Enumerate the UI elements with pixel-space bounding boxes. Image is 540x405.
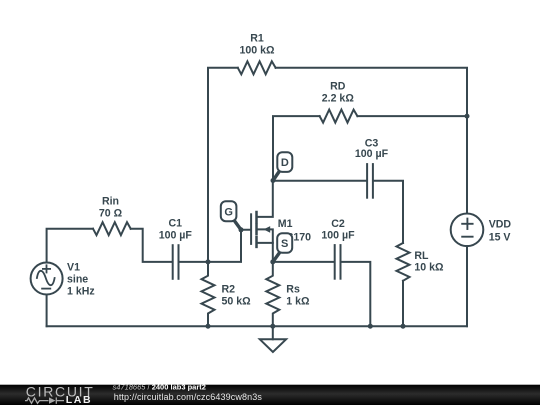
wire RD to VDD rail <box>357 115 467 117</box>
wire D node to C3 <box>273 180 366 182</box>
resistor RD <box>320 110 358 123</box>
wire VDD bottom <box>466 246 468 326</box>
svg-text:RL: RL <box>414 250 429 262</box>
svg-text:100 µF: 100 µF <box>321 229 355 241</box>
svg-text:15 V: 15 V <box>489 231 511 243</box>
svg-text:50 kΩ: 50 kΩ <box>222 296 252 308</box>
voltage source VDD <box>451 214 484 247</box>
label BS170 <box>279 231 311 243</box>
node R2 bottom <box>206 324 211 329</box>
label C1 <box>159 218 193 242</box>
footer title line <box>113 383 263 403</box>
CircuitLab logo text CIRCUIT <box>26 383 95 399</box>
node RL bottom <box>401 324 406 329</box>
svg-text:1 kHz: 1 kHz <box>67 286 95 298</box>
resistor R1 <box>238 61 276 74</box>
node flag D <box>273 152 292 180</box>
wire RD left leg <box>273 116 320 180</box>
wire V1 bottom <box>46 295 48 327</box>
label R1 <box>239 32 275 56</box>
wire R1 to VDD rail <box>276 68 467 116</box>
CircuitLab logo squiggle <box>25 397 64 403</box>
label RL <box>414 250 444 273</box>
resistor R2 <box>202 262 215 326</box>
node D dot <box>271 178 276 183</box>
svg-text:100 kΩ: 100 kΩ <box>239 44 275 56</box>
resistor Rs <box>266 262 279 326</box>
wire C1 to gate junction <box>179 230 250 262</box>
voltage source V1 <box>31 263 63 295</box>
node S dot <box>270 259 275 264</box>
label RD <box>322 80 355 104</box>
capacitor C2 <box>335 245 341 279</box>
wire S node to C2 <box>273 261 334 263</box>
CircuitLab logo text LAB <box>66 394 92 405</box>
resistor RL <box>397 243 410 281</box>
svg-text:D: D <box>281 157 289 169</box>
node RD-VDD junction <box>465 114 470 119</box>
node flag S <box>273 233 292 261</box>
wire Rin to C1 <box>131 229 172 262</box>
svg-text:http://circuitlab.com/czc6439c: http://circuitlab.com/czc6439cw8n3s <box>114 392 263 402</box>
node flag G <box>221 201 241 230</box>
transistor M1 <box>251 181 273 262</box>
svg-text:RD: RD <box>330 80 346 92</box>
svg-text:1 kΩ: 1 kΩ <box>286 296 310 308</box>
wire R1 left leg <box>208 68 238 262</box>
wire C2 to rail <box>341 262 370 326</box>
node ground junction <box>270 324 275 329</box>
svg-text:V1: V1 <box>67 262 80 274</box>
svg-text:R2: R2 <box>222 283 236 295</box>
svg-text:10 kΩ: 10 kΩ <box>414 262 444 274</box>
svg-text:Rs: Rs <box>286 283 300 295</box>
label R2 <box>222 283 252 307</box>
label V1 <box>67 262 95 298</box>
svg-text:Rin: Rin <box>102 196 119 208</box>
footer bar <box>0 385 540 405</box>
svg-text:2.2 kΩ: 2.2 kΩ <box>322 93 355 105</box>
svg-text:M1: M1 <box>278 218 293 230</box>
svg-text:VDD: VDD <box>489 218 512 230</box>
wire RL bottom <box>402 281 404 326</box>
node C2 bottom <box>368 324 373 329</box>
wire C3 to RL <box>374 181 403 243</box>
node A junction C1-R2-R1-gate <box>206 259 211 264</box>
ground <box>260 326 286 352</box>
resistor Rin <box>93 222 131 235</box>
wire V1 top to Rin <box>47 229 93 263</box>
svg-text:sine: sine <box>67 274 88 286</box>
svg-text:G: G <box>224 206 233 218</box>
wire VDD column top <box>466 116 468 213</box>
capacitor C1 <box>173 245 179 279</box>
svg-text:100 µF: 100 µF <box>159 230 193 242</box>
wire bottom rail <box>47 325 467 327</box>
svg-text:S: S <box>281 238 288 250</box>
label C3 <box>355 138 389 161</box>
label C2 <box>321 218 355 241</box>
svg-text:LAB: LAB <box>66 394 92 405</box>
label VDD <box>489 218 512 243</box>
label Rs <box>286 283 310 307</box>
svg-text:R1: R1 <box>250 32 264 44</box>
capacitor C3 <box>367 164 373 198</box>
svg-text:70 Ω: 70 Ω <box>99 207 123 219</box>
node G dot <box>239 227 244 232</box>
svg-text:s4718665 / 2400 lab3 part2: s4718665 / 2400 lab3 part2 <box>113 383 206 392</box>
svg-text:C1: C1 <box>169 218 183 230</box>
label M1 <box>278 218 293 230</box>
svg-text:100 µF: 100 µF <box>355 148 389 160</box>
label Rin <box>99 196 123 220</box>
